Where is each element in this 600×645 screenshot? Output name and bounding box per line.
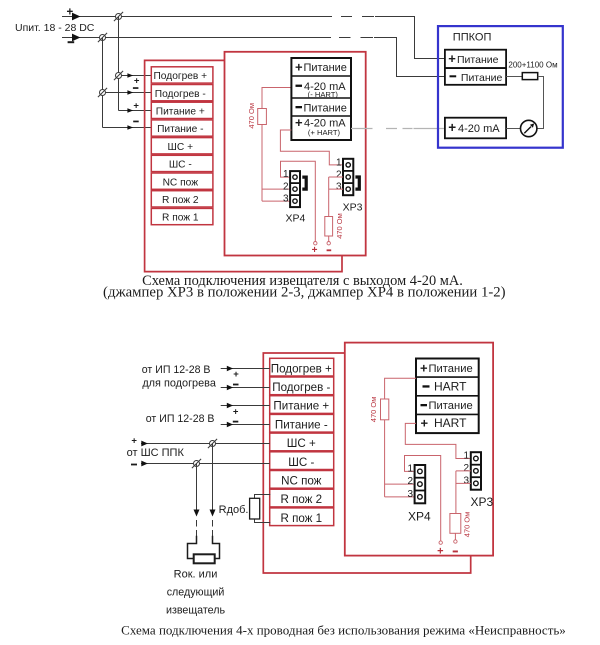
- arrow to Питание + (D2): [227, 403, 233, 409]
- terminal NC пож (D2): [270, 471, 334, 489]
- wire to Питание -: [103, 127, 152, 129]
- svg-text:+: +: [312, 245, 318, 256]
- terminal Питание - (D1): [151, 120, 213, 136]
- wire Uпит plus to ППКОП +Питание: [62, 17, 446, 59]
- svg-text:R пож 1: R пож 1: [280, 512, 322, 525]
- svg-text:(- HART): (- HART): [308, 90, 339, 99]
- arrow to Подогрев +: [127, 73, 133, 78]
- wire +4-20 mA to meter: [506, 128, 520, 130]
- wire 470 Ом to -HART (D2): [385, 378, 416, 399]
- svg-text:Подогрев -: Подогрев -: [155, 89, 206, 100]
- svg-text:Схема подключения 4-х проводна: Схема подключения 4-х проводная без испо…: [121, 623, 566, 638]
- terminal R пож 1 (D1): [151, 208, 213, 224]
- svg-text:+: +: [233, 407, 239, 418]
- dashed lead ШС + to Rок: [212, 520, 214, 536]
- svg-text:XP4: XP4: [285, 212, 305, 224]
- svg-text:Rдоб.: Rдоб.: [219, 504, 249, 516]
- pin label +4-20 mA (+HART) (D1 block): [295, 115, 346, 137]
- terminal Питание - (D2): [270, 414, 334, 432]
- wire to Подогрев +: [119, 75, 152, 77]
- wire ballast resistor to meter: [537, 77, 544, 129]
- svg-text:от ИП 12-28 В: от ИП 12-28 В: [142, 364, 211, 376]
- terminal circle junction Подогрев +: [114, 71, 123, 80]
- svg-text:NC пож: NC пож: [281, 475, 322, 488]
- terminal circle on minus wire: [98, 33, 107, 42]
- svg-text:Uпит. 18 - 28 DC: Uпит. 18 - 28 DC: [15, 22, 95, 34]
- svg-text:+: +: [437, 546, 443, 558]
- svg-text:200+1100 Ом: 200+1100 Ом: [508, 61, 557, 70]
- svg-text:от ШС ППК: от ШС ППК: [127, 447, 185, 459]
- svg-text:XP4: XP4: [408, 509, 431, 523]
- wire ШС - drop to Rок: [196, 464, 198, 510]
- detector inner box D2: [345, 343, 493, 556]
- svg-text:(+ HART): (+ HART): [308, 128, 341, 137]
- jumper XP3 (D1): [343, 159, 353, 195]
- meter (current indicator): [521, 120, 537, 136]
- svg-text:+: +: [421, 416, 429, 431]
- arrow to Подогрев -: [127, 90, 133, 95]
- terminal Подогрев - (D1): [151, 85, 213, 101]
- svg-text:470 Ом: 470 Ом: [247, 103, 256, 129]
- svg-text:+: +: [134, 75, 140, 86]
- arrow to ШС - (D2): [141, 461, 148, 467]
- wire to Подогрев - (D2): [221, 387, 270, 389]
- jumper XP4 (D2): [415, 465, 426, 503]
- svg-text:R пож 2: R пож 2: [280, 493, 322, 506]
- svg-text:+: +: [133, 100, 139, 111]
- svg-text:3: 3: [407, 489, 413, 500]
- terminal Подогрев + (D2): [270, 358, 334, 376]
- svg-text:Питание +: Питание +: [156, 107, 205, 118]
- svg-text:от ИП 12-28 В: от ИП 12-28 В: [146, 413, 215, 425]
- svg-text:XP3: XP3: [343, 201, 363, 213]
- svg-text:R пож 2: R пож 2: [162, 195, 199, 206]
- wire to ШС + (D2): [141, 443, 270, 445]
- jumper cap bracket XP3 pins 2-3 (D1): [355, 177, 359, 189]
- svg-text:Питание: Питание: [304, 102, 347, 114]
- node - label Подогрев: [133, 87, 139, 89]
- svg-text:3: 3: [283, 194, 289, 205]
- svg-text:R пож 1: R пож 1: [162, 213, 199, 224]
- svg-text:4-20 mA: 4-20 mA: [458, 123, 500, 135]
- svg-text:следующий: следующий: [167, 586, 225, 598]
- svg-text:1: 1: [463, 451, 469, 462]
- svg-text:ШС -: ШС -: [288, 456, 314, 469]
- wire to ШС - (D2): [141, 463, 270, 465]
- terminal +4-20 mA (ППКОП): [445, 118, 506, 139]
- terminal ШС + (D1): [151, 138, 213, 154]
- wire 470 Ом to -4-20 mA terminal (D1): [262, 88, 291, 109]
- wire XP3 pins 2,3 to 470 Ом lower (D2): [456, 471, 471, 514]
- terminal ШС - (D1): [151, 155, 213, 171]
- terminal R пож 1 (D2): [270, 508, 334, 526]
- wire 470 Ом lower to - output (D1): [328, 236, 330, 242]
- node - output label (D2): [453, 551, 458, 553]
- terminal R пож 2 (D1): [151, 191, 213, 207]
- arrow to Питание +: [127, 108, 133, 113]
- svg-text:470 Ом: 470 Ом: [335, 213, 344, 239]
- pin label -Питание (D1 block): [296, 102, 347, 114]
- resistor Rок body: [194, 554, 215, 563]
- svg-text:+: +: [448, 51, 456, 66]
- terminal Питание + (D2): [270, 396, 334, 414]
- ППКОП box: [438, 26, 563, 148]
- svg-text:3: 3: [336, 182, 342, 193]
- detector outer box D2: [263, 353, 470, 573]
- terminal ШС - (D2): [270, 452, 334, 470]
- arrow to Питание -: [127, 125, 133, 130]
- node - label ШС (D2): [131, 464, 137, 466]
- terminal circle - output (D2): [454, 540, 457, 543]
- wire 470 Ом to XP4 pins 2,3 (D2): [385, 420, 415, 497]
- svg-text:Подогрев +: Подогрев +: [271, 362, 332, 375]
- svg-text:2: 2: [336, 170, 342, 181]
- wire to Подогрев -: [103, 92, 152, 94]
- svg-text:NC пож: NC пож: [163, 177, 199, 188]
- svg-text:470 Ом: 470 Ом: [369, 397, 378, 423]
- svg-text:для подогрева: для подогрева: [142, 378, 217, 390]
- pin label +HART (D2 block): [421, 416, 468, 431]
- wire Rдоб to R пож 2: [255, 495, 271, 499]
- svg-text:Питание: Питание: [457, 54, 499, 66]
- terminal R пож 2 (D2): [270, 489, 334, 507]
- svg-text:+: +: [295, 59, 303, 74]
- svg-text:Подогрев +: Подогрев +: [153, 71, 207, 82]
- svg-text:1: 1: [283, 169, 289, 180]
- wire XP4 pin 1 to + output (D2): [405, 456, 441, 542]
- wire to Питание - (D2): [221, 424, 270, 426]
- svg-text:HART: HART: [434, 380, 467, 394]
- wire 4-20 mA loop to ППКОП: [351, 128, 446, 130]
- resistor 470 Ом lower (D2): [450, 512, 471, 538]
- jumper XP3 (D2): [471, 452, 481, 490]
- svg-text:Rок. или: Rок. или: [174, 568, 218, 580]
- svg-text:Питание +: Питание +: [273, 400, 329, 413]
- svg-text:Питание: Питание: [429, 363, 473, 375]
- resistor 200+1100 Ом: [522, 73, 537, 80]
- pin label -4-20 mA (-HART) (D1 block): [296, 81, 347, 99]
- svg-text:Питание -: Питание -: [157, 124, 203, 135]
- terminal -Питание (ППКОП): [445, 68, 506, 85]
- node - output label (D1): [327, 249, 332, 251]
- wire Rдоб to R пож 1: [255, 519, 271, 523]
- node - label Питание: [133, 121, 139, 123]
- svg-text:+: +: [420, 360, 428, 375]
- black terminal block D1: [291, 58, 351, 140]
- wire vertical minus branch: [102, 38, 104, 128]
- svg-text:ППКОП: ППКОП: [453, 31, 492, 43]
- wire to Питание +: [119, 110, 152, 112]
- arrow on plus wire: [72, 13, 80, 21]
- svg-text:ШС +: ШС +: [168, 142, 194, 153]
- terminal circle + output (D2): [439, 541, 442, 544]
- svg-text:Подогрев -: Подогрев -: [272, 381, 330, 394]
- svg-text:Питание -: Питание -: [275, 418, 328, 431]
- svg-text:+: +: [131, 435, 137, 446]
- resistor 470 Ом upper (D2): [369, 397, 389, 423]
- svg-text:2: 2: [283, 182, 289, 193]
- dashed lead ШС - to Rок: [196, 520, 198, 536]
- svg-text:+: +: [295, 115, 303, 130]
- wire XP4 pin 1 to + output (D1): [281, 161, 316, 242]
- wire XP3 pins 2,3 to 470 Ом lower (D1): [329, 177, 343, 217]
- arrow to Подогрев + (D2): [227, 366, 233, 372]
- arrow to ШС + (D2): [141, 441, 148, 447]
- detector inner box D1: [225, 52, 366, 256]
- wire -Питание to ballast resistor: [506, 76, 522, 78]
- resistor 470 Ом upper (D1): [247, 103, 266, 129]
- terminal circle - output (D1): [327, 242, 330, 245]
- resistor 470 Ом lower (D1): [325, 213, 344, 239]
- wire to Питание + (D2): [221, 405, 270, 407]
- svg-text:1: 1: [407, 463, 413, 474]
- arrow down ШС + branch: [210, 510, 216, 517]
- wire vertical plus branch: [118, 17, 120, 111]
- svg-text:Питание: Питание: [461, 72, 503, 84]
- terminal +Питание (ППКОП): [445, 50, 506, 68]
- svg-text:(джампер ХР3 в положении 2-3,: (джампер ХР3 в положении 2-3, джампер ХР…: [103, 285, 506, 301]
- arrow down ШС - branch: [194, 510, 200, 517]
- svg-text:2: 2: [463, 463, 469, 474]
- svg-text:Питание: Питание: [304, 62, 347, 74]
- jumper XP4 (D1): [290, 171, 300, 207]
- detector outer box D1: [145, 60, 342, 271]
- pin label -HART (D2 block): [423, 380, 468, 394]
- resistor Rдоб: [250, 498, 260, 519]
- terminal circle + output (D1): [314, 242, 317, 245]
- wire 470 Ом lower to - output (D2): [454, 533, 456, 540]
- svg-text:2: 2: [407, 476, 413, 487]
- svg-text:3: 3: [463, 475, 469, 486]
- black terminal block D2: [416, 359, 479, 434]
- jumper cap bracket XP4 pins 1-2 (D1): [302, 177, 306, 189]
- terminal circle on plus wire: [114, 12, 123, 21]
- node - label: [68, 41, 75, 43]
- wire to Подогрев + (D2): [221, 368, 270, 370]
- node - label Подогрев (D2): [233, 384, 239, 386]
- wire Uпит minus to ППКОП -Питание: [62, 38, 446, 77]
- terminal circle junction ШС + (D2): [208, 439, 217, 448]
- arrow to Подогрев - (D2): [227, 385, 233, 391]
- svg-text:470 Ом: 470 Ом: [462, 512, 471, 538]
- pin label -Питание (D2 block): [421, 400, 473, 412]
- node - label Питание (D2): [233, 421, 239, 423]
- svg-text:HART: HART: [434, 416, 467, 430]
- terminal NC пож (D1): [151, 173, 213, 189]
- wire ШС + drop to Rок: [212, 444, 214, 510]
- svg-text:извещатель: извещатель: [166, 604, 225, 616]
- svg-text:+: +: [448, 120, 456, 135]
- terminal Подогрев - (D2): [270, 377, 334, 395]
- svg-text:ШС -: ШС -: [169, 160, 192, 171]
- arrow to Питание - (D2): [227, 422, 233, 428]
- resistor Rок leads: [188, 536, 220, 559]
- wire +HART to XP3 pin 1 (D2): [405, 423, 471, 458]
- terminal Питание + (D1): [151, 102, 213, 118]
- terminal circle junction Подогрев -: [98, 88, 107, 97]
- pin label +Питание (D2 block): [420, 360, 473, 375]
- terminal Подогрев + (D1): [151, 67, 213, 83]
- svg-text:1: 1: [336, 157, 342, 168]
- wire +4-20 mA to XP3 pin 1 (D1): [280, 130, 343, 165]
- terminal circle junction ШС - (D2): [192, 459, 201, 468]
- svg-text:Питание: Питание: [429, 400, 473, 412]
- pin label +Питание (D1 block): [295, 59, 347, 74]
- svg-text:+: +: [233, 369, 239, 380]
- svg-text:ШС +: ШС +: [287, 437, 316, 450]
- arrow on minus wire: [72, 34, 80, 42]
- svg-text:XP3: XP3: [470, 495, 493, 509]
- terminal ШС + (D2): [270, 433, 334, 451]
- wire 470 Ом to XP4 pins 2,3 (D1): [262, 125, 290, 202]
